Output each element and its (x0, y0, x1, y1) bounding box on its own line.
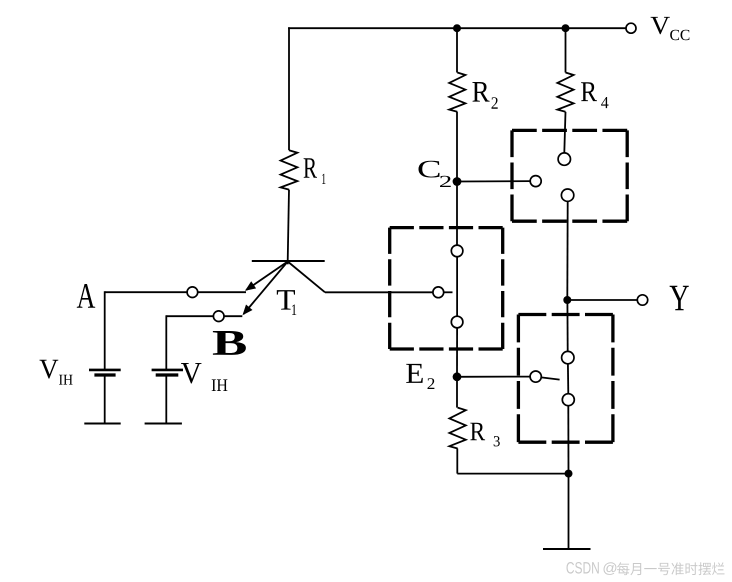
resistor R2 (449, 73, 465, 112)
transistor T1 multi-emitter: base bar (252, 260, 325, 262)
wire T3 switch closed (collector-emitter) (567, 364, 569, 394)
wire node C2 to T4 base terminal (457, 180, 530, 182)
wire node Y to output terminal (567, 299, 637, 301)
wire input B horizontal (166, 315, 242, 317)
wire vertical drop to R1 (288, 27, 290, 150)
wire battery B to ground (165, 376, 167, 424)
wire down to ground (568, 474, 570, 549)
wire T1 collector to T2 base terminal (325, 291, 433, 293)
label V_IH left (40, 360, 59, 379)
terminal T2 base circle (433, 287, 444, 298)
wire R2 top (456, 28, 458, 72)
watermark CSDN (566, 562, 598, 574)
label V_IH right (181, 363, 202, 384)
terminal T3 emitter circle (562, 394, 574, 406)
wire T2 switch closed (collector-emitter) (456, 257, 458, 317)
wire node E2 to T3 base terminal (457, 376, 530, 378)
node C2 (453, 177, 462, 186)
resistor R1 (281, 150, 298, 189)
terminal T3 collector circle (562, 351, 574, 363)
wire battery A to ground (104, 376, 106, 424)
wire node Y down into T3 box (566, 300, 568, 351)
node E2 (453, 372, 462, 381)
transistor T4 dashed box (switch model, open) (512, 130, 627, 221)
label R1 (304, 158, 317, 178)
wire node C2 down into T2 box (456, 182, 458, 246)
wire T4 emitter down to node Y (566, 201, 568, 300)
terminal Vcc open circle (626, 23, 636, 33)
wire T3 emitter to ground node (567, 406, 569, 474)
node junction top rail / R2 (453, 24, 461, 32)
wire T2 base tick (444, 291, 453, 293)
wire input B down to battery (165, 315, 167, 369)
terminal T4 emitter circle (switch open) (561, 189, 573, 201)
resistor R4 (557, 73, 573, 112)
label T1 (277, 290, 295, 309)
label A (77, 284, 95, 308)
transistor T3 dashed box (switch model, closed) (518, 315, 613, 443)
terminal Y open circle (637, 295, 647, 305)
wire R4 bottom to T4 collector (564, 112, 565, 153)
wire top rail (Vcc) from R1 branch to terminal (288, 27, 626, 29)
resistor R3 (449, 408, 465, 449)
label B (213, 331, 246, 355)
battery V_IH (input B) (152, 369, 183, 372)
label R3 (470, 423, 485, 441)
terminal T2 emitter circle (451, 316, 463, 328)
transistor T2 dashed box (switch model, closed) (390, 228, 503, 349)
wire R4 top (565, 28, 567, 72)
ground (input A) (84, 423, 120, 425)
ground (output stage) (543, 548, 591, 550)
wire R3 to ground node (457, 473, 568, 475)
node junction at ground branch (565, 470, 573, 478)
battery V_IH (input A) (89, 369, 121, 372)
wire input A horizontal (105, 291, 246, 293)
label C2 (418, 161, 439, 178)
label Y (670, 286, 689, 310)
wire R1 bottom to T1 base (crosses base bar) (288, 190, 289, 265)
label R4 (581, 82, 597, 101)
terminal T4 base circle (530, 176, 541, 187)
terminal T3 base circle (530, 371, 541, 382)
wire T2 emitter to node E2 (456, 328, 458, 377)
wire T3 base tick (541, 377, 559, 379)
label V_CC (651, 17, 670, 34)
transistor T1 emitter 2 (to input B) with arrowhead (244, 262, 288, 315)
terminal T2 collector circle (451, 245, 463, 257)
wire R2 bottom to node C2 (456, 112, 458, 182)
terminal T4 collector circle (558, 153, 570, 165)
node Y junction (563, 296, 571, 304)
terminal input B circle (213, 311, 224, 322)
terminal input A circle (187, 287, 198, 298)
wire input A down to battery (104, 291, 106, 369)
ground (input B) (145, 423, 182, 425)
node junction top rail / R4 (562, 24, 570, 32)
label R2 (472, 82, 489, 102)
label E2 (406, 364, 423, 383)
transistor T1 collector lead (288, 262, 325, 293)
transistor T1 emitter 1 (to input A) with arrowhead (246, 262, 288, 291)
wire R3 bottom (456, 449, 458, 474)
wire node E2 to R3 (456, 377, 458, 408)
